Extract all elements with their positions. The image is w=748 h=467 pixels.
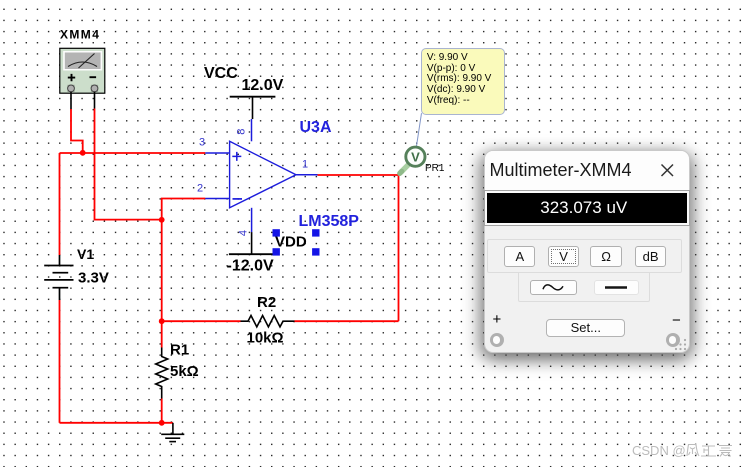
resistor R1 xyxy=(156,348,168,399)
VDD power symbol xyxy=(229,232,273,254)
probe tooltip xyxy=(421,48,505,115)
wire net A down to V1 xyxy=(59,153,61,255)
svg-text:XMM4: XMM4 xyxy=(60,28,100,42)
svg-text:4: 4 xyxy=(237,230,249,236)
svg-text:12.0V: 12.0V xyxy=(242,77,284,94)
probe PR1 xyxy=(400,147,425,173)
wire output vertical xyxy=(398,175,400,321)
VDD selection handles xyxy=(273,229,320,255)
wire XMM4 minus to net B xyxy=(95,109,162,220)
svg-text:2: 2 xyxy=(197,182,203,194)
wire XMM4 plus to node A xyxy=(71,109,83,153)
wire net A horizontal to op-amp pin 3 xyxy=(60,152,206,154)
svg-text:LM358P: LM358P xyxy=(299,213,360,230)
wire V1 bottom down xyxy=(59,300,61,423)
svg-text:10kΩ: 10kΩ xyxy=(247,329,284,346)
svg-text:U3A: U3A xyxy=(300,119,332,136)
svg-text:1: 1 xyxy=(302,159,308,171)
op-amp U3A xyxy=(205,119,317,232)
wire net B vertical to node C xyxy=(161,220,163,321)
svg-text:3.3V: 3.3V xyxy=(78,269,109,286)
svg-text:3: 3 xyxy=(199,136,205,148)
svg-text:R1: R1 xyxy=(170,341,189,358)
wire R2 to output corner xyxy=(295,320,399,322)
svg-text:V: V xyxy=(411,150,420,165)
wire bottom horizontal to ground node xyxy=(60,422,173,424)
wire XMM4 minus stub xyxy=(94,92,96,109)
wire XMM4 plus stub xyxy=(70,92,72,109)
multimeter dialog xyxy=(484,150,690,353)
ground xyxy=(161,423,184,442)
node bottom junction xyxy=(159,420,165,426)
wire op-amp pin 2 branch xyxy=(162,199,206,220)
node C junction xyxy=(159,318,165,324)
watermark CSDN xyxy=(632,443,686,458)
svg-text:8: 8 xyxy=(236,129,248,135)
svg-text:VCC: VCC xyxy=(204,65,238,82)
svg-text:5kΩ: 5kΩ xyxy=(170,363,199,380)
wire node C to R1 xyxy=(161,321,163,347)
resistor R2 xyxy=(241,316,295,327)
probe PR1 callout line xyxy=(417,113,422,146)
wire R1 to bottom node xyxy=(161,399,163,423)
wire node C to R2 xyxy=(162,320,241,322)
VCC power symbol xyxy=(230,97,276,119)
svg-text:-12.0V: -12.0V xyxy=(227,258,274,275)
node net B junction xyxy=(159,217,165,223)
watermark CJK glyphs xyxy=(685,443,735,459)
svg-text:V1: V1 xyxy=(77,246,94,262)
battery V1 xyxy=(44,255,73,300)
multimeter XMM4 icon xyxy=(60,48,105,93)
svg-text:PR1: PR1 xyxy=(425,163,445,174)
node A junction xyxy=(80,150,86,156)
svg-text:R2: R2 xyxy=(257,294,276,311)
wire op-amp output horizontal xyxy=(318,174,399,176)
